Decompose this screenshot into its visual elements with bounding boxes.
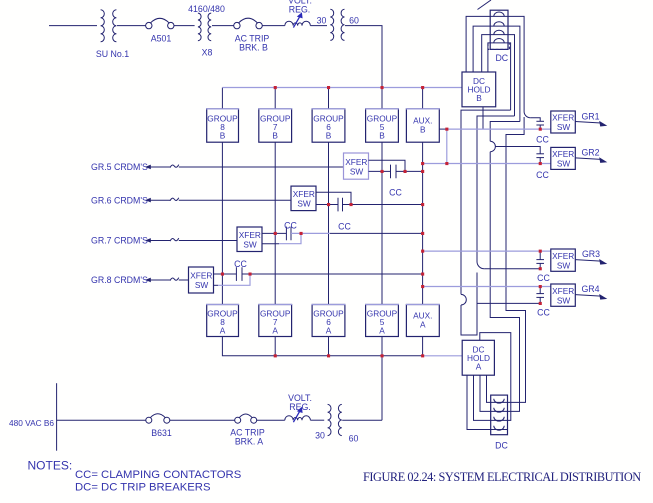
DC trip breaker stack B (box) (490, 10, 508, 49)
contactor box AUX. B (406, 109, 440, 142)
wire: stack B contact 3 loop (482, 35, 515, 116)
contactor box GROUP 7 A (258, 305, 292, 337)
wire: bus stub down to GROUP 6 B (328, 88, 330, 109)
wire: feeder between B631 and AC TRIP BRK A (170, 419, 235, 421)
wire: DC HOLD A top link from staircase (480, 333, 511, 421)
hop: V490 bump over GR2 feed (490, 141, 495, 151)
wire: feeder between volt reg and 30/60 transformer (310, 25, 327, 27)
breaker contact 2 (stack B) (494, 22, 504, 26)
node: top 480V bus (lavender) (221, 88, 223, 109)
wire: feeder from 30/60 transformer to drop at x=382 (345, 26, 382, 88)
switch GR.7 (170, 238, 179, 241)
capacitor CC (GR4) (536, 287, 544, 304)
switch GR.6 (170, 198, 179, 201)
transfer switch box XFER SW (row GR.8) (189, 267, 214, 293)
svg-text:GR4: GR4 (581, 284, 599, 294)
node: bottom 480V bus (222, 337, 422, 356)
capacitor CC (GR1) (536, 121, 544, 129)
wire: stack B contact 2 loop (473, 26, 520, 121)
wire: GR3 feed horizontal (484, 268, 540, 270)
svg-text:BRK. A: BRK. A (235, 437, 263, 447)
svg-text:SW: SW (557, 260, 571, 270)
breaker contact 2 (stack A) (494, 408, 504, 412)
svg-text:CC: CC (338, 222, 351, 232)
svg-text:SW: SW (557, 159, 571, 169)
wire: lavender GR3 line (423, 250, 551, 252)
wire: GR2 output with arrow (575, 157, 607, 163)
wire: GR2 feed horizontal (495, 147, 540, 154)
svg-text:DC: DC (495, 53, 508, 63)
breaker contact 4 (stack B) (494, 39, 504, 43)
wire: DC HOLD A bottom wire 2 to stack A (480, 375, 491, 411)
svg-text:SU No.1: SU No.1 (96, 49, 129, 59)
DC stack B dashed bottom section (488, 43, 509, 49)
wire: XFER6 bottom output to capacitor (316, 204, 338, 206)
svg-text:60: 60 (349, 15, 359, 25)
wire: feeder between A501 and X8 transformer (174, 25, 195, 27)
wire: feeder between AC TRIP A and volt reg (257, 419, 285, 421)
wire: bus stub from GROUP 5 A (381, 337, 383, 356)
arrow tap GR.8 (145, 278, 151, 283)
DC trip breaker stack A (box) (491, 395, 508, 435)
contactor box GROUP 5 B (365, 109, 399, 142)
node: row GR.8 junctions (221, 273, 224, 276)
svg-text:REG.: REG. (289, 4, 311, 14)
svg-text:CC: CC (389, 188, 402, 198)
transfer switch box XFER SW (row GR.5) (344, 153, 369, 179)
wire GR.7 row switch to XFER box (179, 240, 237, 242)
wire GR.7 row to switch (150, 240, 171, 242)
wire: GR3 output with arrow (575, 259, 607, 265)
svg-text:CC: CC (536, 170, 549, 180)
breaker contact 3 (stack A) (494, 417, 504, 421)
wire: GR4 feed horizontal from V477 tee (477, 302, 540, 304)
svg-text:30: 30 (317, 16, 327, 26)
wire: V461 continues to U-bottom (461, 273, 477, 336)
wire: feeder from 30/60 transformer to riser (342, 419, 382, 421)
svg-text:NOTES:: NOTES: (28, 459, 73, 473)
wire: GR1 output with arrow (575, 121, 607, 127)
svg-text:XFER: XFER (190, 270, 212, 280)
wire: V490 continues down to staircase (490, 152, 519, 412)
wire: XFER5 top output hook (369, 160, 406, 171)
svg-text:XFER: XFER (293, 189, 315, 199)
svg-text:B: B (220, 131, 226, 141)
breaker contact 4 (stack A) (494, 426, 504, 430)
bend: V477 corner into GR3 feed (477, 262, 484, 269)
wire: stack A contact rails inside (491, 401, 508, 403)
wire: GR4 output with arrow (575, 294, 607, 300)
svg-text:B: B (420, 125, 426, 135)
wire GR.5 row switch to XFER box (179, 166, 344, 168)
svg-text:SW: SW (350, 167, 364, 177)
node: bottom bus junctions (274, 354, 277, 357)
wire: XFER7 top output to capacitor (262, 232, 286, 234)
capacitor CC (row GR.7) (286, 227, 291, 241)
svg-text:B: B (326, 131, 332, 141)
svg-text:B: B (379, 131, 385, 141)
wire: bus stub down to AUX B (422, 88, 424, 109)
breaker contact 1 (stack A) (494, 399, 504, 403)
contactor box GROUP 5 A (365, 305, 399, 337)
wire: AUX B link to DC HOLD B region (439, 128, 448, 130)
wire: feeder between X8 and AC TRIP BRK B (212, 25, 234, 27)
wire: GR1 feed horizontal (530, 118, 540, 122)
node: row GR.7 junctions (274, 232, 277, 235)
svg-text:GR.5 CRDM'S: GR.5 CRDM'S (91, 162, 148, 172)
bend: GR1 feed corner from V524 (524, 112, 530, 118)
transfer switch box XFER SW (GR3) (551, 249, 576, 271)
node: x447 branch junctions (445, 128, 448, 131)
breaker AC TRIP BRK. B (234, 18, 263, 29)
contactor box AUX. A (406, 305, 440, 337)
wire: stack B contact 4 loop (488, 43, 511, 110)
svg-text:480 VAC B6: 480 VAC B6 (9, 418, 54, 428)
transformer SU No.1 (101, 10, 117, 42)
svg-text:SW: SW (297, 199, 311, 209)
svg-text:A: A (326, 326, 332, 336)
wire: bus stub from GROUP 6 A (328, 337, 330, 356)
wire: column under AUX B (422, 142, 424, 304)
wire: bus stub down to GROUP 5 B (381, 88, 383, 109)
wire: leader diagonal top (478, 0, 492, 10)
wire: column under GROUP 8 B (221, 142, 223, 304)
wire: bus V490 from stack loop2 down (490, 122, 520, 142)
svg-text:SW: SW (557, 295, 571, 305)
wire: column under GROUP 7 B (274, 142, 276, 304)
node: row GR.6 junctions (327, 203, 330, 206)
svg-text:XFER: XFER (552, 149, 574, 159)
svg-text:A: A (379, 326, 385, 336)
transfer switch box XFER SW (row GR.7) (237, 227, 262, 252)
wire: bus V506 from outer loop down to staircase (506, 117, 526, 402)
wire: bottom feeder left segment (57, 419, 146, 421)
transformer 30/60 (top) (330, 9, 344, 40)
wire GR.8 row switch to XFER box (179, 279, 189, 281)
hop: V461 bump over GR4 feed (461, 294, 466, 305)
transfer switch box XFER SW (GR2) (551, 147, 576, 169)
wire: row GR.5 from capacitor to AUX column (396, 170, 423, 172)
switch GR.5 (170, 165, 179, 168)
transfer switch box XFER SW (row GR.6) (291, 186, 316, 211)
svg-text:BRK. B: BRK. B (239, 43, 268, 53)
svg-text:XFER: XFER (552, 113, 574, 123)
svg-text:DC: DC (495, 441, 508, 451)
breaker contact 1 (stack B) (494, 12, 504, 16)
svg-text:CC: CC (537, 308, 550, 318)
relay box DC HOLD A (462, 340, 494, 375)
wire: bus stub from GROUP 7 A (274, 337, 276, 356)
svg-text:CC= CLAMPING CONTACTORS: CC= CLAMPING CONTACTORS (75, 469, 242, 481)
voltage regulator (bottom) VOLT. REG. (285, 407, 311, 422)
node: AUX column lavender taps (421, 162, 424, 165)
wire: bus V477 from stack loop3 down to GR3 branch (477, 116, 515, 262)
transfer switch box XFER SW (GR4) (551, 284, 576, 306)
wire: DC HOLD A bottom wire 4 to stack A (467, 375, 491, 429)
capacitor CC (GR3) (536, 251, 544, 269)
svg-text:XFER: XFER (345, 157, 367, 167)
svg-text:GR3: GR3 (582, 249, 600, 259)
wire: feeder between volt reg and 30/60 transformer (310, 419, 324, 421)
svg-text:B: B (476, 93, 482, 103)
wire: XFER5 bottom output to capacitor (369, 170, 391, 172)
svg-text:B: B (272, 131, 278, 141)
wire: bus continues lavender to DC HOLD A (423, 355, 463, 357)
svg-text:REG.: REG. (289, 402, 311, 412)
arrow tap GR.7 (145, 238, 151, 243)
svg-text:GR1: GR1 (581, 111, 599, 121)
wire: XFER6 top output hook (316, 192, 351, 204)
contactor box GROUP 6 A (312, 305, 346, 337)
wire: XFER8 bottom output (214, 284, 219, 286)
wire GR.6 row switch to XFER box (179, 199, 291, 201)
svg-text:GR.6 CRDM'S: GR.6 CRDM'S (91, 195, 148, 205)
relay box DC HOLD B (462, 72, 496, 107)
svg-text:B631: B631 (151, 428, 172, 438)
svg-text:CC: CC (234, 259, 247, 269)
svg-text:GR2: GR2 (581, 148, 599, 158)
transfer switch box XFER SW (GR1) (551, 111, 576, 133)
svg-text:XFER: XFER (552, 286, 574, 296)
svg-text:XFER: XFER (239, 230, 261, 240)
svg-text:CC: CC (536, 135, 549, 145)
wire: row GR.6 from capacitor to AUX column (343, 204, 423, 206)
wire GR.5 row to switch (150, 166, 171, 168)
wire: lavender branch 447 vertical (446, 129, 448, 163)
svg-text:4160/480: 4160/480 (188, 4, 225, 14)
svg-text:SW: SW (557, 122, 571, 132)
svg-text:A: A (272, 326, 278, 336)
wire: row GR.8 from capacitor to AUX column (242, 273, 423, 275)
wire: lavender GR2 line (423, 163, 551, 165)
svg-text:DC= DC TRIP BREAKERS: DC= DC TRIP BREAKERS (75, 481, 211, 493)
svg-text:A: A (420, 320, 426, 330)
junction dots (red) (221, 86, 542, 357)
voltage regulator (top) VOLT. REG. (285, 12, 311, 27)
contactor box GROUP 8 A (206, 305, 239, 337)
wire: row GR.7 from capacitor to AUX column (lavender then navy) (291, 232, 330, 234)
transformer X8 4160/480 (198, 13, 211, 41)
wire: bus V461 from stack loop4 down right side (461, 110, 511, 294)
capacitor CC (row GR.8) (236, 267, 242, 281)
contactor box GROUP 6 B (312, 109, 346, 142)
breaker AC TRIP BRK. A (235, 414, 257, 423)
switch GR.8 (170, 278, 179, 281)
wire: top 4160V feeder left segment (49, 25, 97, 27)
wire: feeder between SU transformer and A501 (117, 25, 146, 27)
svg-text:A501: A501 (151, 34, 172, 44)
wire: feeder between AC TRIP BRK B and volt reg (262, 25, 285, 27)
breaker B631 (146, 414, 170, 423)
capacitor CC (row GR.5) (391, 165, 397, 179)
wire GR.8 row to switch (150, 279, 171, 281)
wire: stack B contact 1 loop (outermost) (466, 16, 524, 111)
svg-text:X8: X8 (202, 47, 213, 57)
node: row GR.5 junctions (381, 170, 384, 173)
wire: bus stub from AUX A (422, 337, 424, 356)
wire: lavender hook row GR.8 (218, 274, 250, 285)
svg-text:GR.7 CRDM'S: GR.7 CRDM'S (91, 236, 148, 246)
node: top bus junctions (274, 86, 277, 89)
svg-text:GR.8 CRDM'S: GR.8 CRDM'S (91, 275, 148, 285)
wire: column under GROUP 5 B (381, 142, 383, 304)
transformer 30/60 (bottom) (328, 404, 342, 435)
capacitor CC (row GR.6) (338, 198, 343, 212)
wire: DC HOLD A bottom wire 1 to stack A (487, 375, 491, 402)
wire: XFER7 bottom output (262, 243, 279, 245)
svg-text:XFER: XFER (552, 251, 574, 261)
svg-text:CC: CC (537, 273, 550, 283)
svg-text:A: A (220, 326, 226, 336)
wire: bus stub down to GROUP 7 B (274, 88, 276, 109)
svg-text:SW: SW (195, 280, 209, 290)
wire: lavender hook row GR.7 (279, 233, 301, 243)
svg-text:30: 30 (315, 431, 325, 441)
contactor box GROUP 7 B (258, 109, 292, 142)
wire GR.6 row to switch (150, 199, 171, 201)
wire: lavender GR4 line (423, 286, 551, 288)
wire: DC HOLD B bottom stub to GR1 lavender (482, 107, 484, 129)
wire: XFER8 top output to capacitor (214, 273, 237, 275)
breaker contact 3 (stack B) (494, 30, 504, 34)
svg-text:FIGURE 02.24: SYSTEM ELECTRIC: FIGURE 02.24: SYSTEM ELECTRICAL DISTRIBU… (363, 470, 641, 484)
wire: riser from bottom feeder to bottom bus at x=382 (381, 356, 383, 420)
arrow tap GR.6 (145, 198, 151, 203)
arrow tap GR.5 (145, 165, 151, 170)
svg-text:A: A (476, 361, 482, 371)
breaker A501 (146, 18, 174, 29)
node: GR capacitor junctions at x540 (539, 128, 542, 131)
wire: left riser at 480 VAC B6 tap (56, 383, 58, 451)
svg-text:SW: SW (243, 239, 257, 249)
capacitor CC (GR2) (536, 154, 544, 164)
svg-text:CC: CC (284, 220, 297, 230)
svg-text:60: 60 (349, 434, 359, 444)
wire: column under GROUP 6 B (328, 142, 330, 304)
wire: lavender GR1 line (447, 128, 551, 130)
wire: DC HOLD A bottom wire 3 to stack A (474, 375, 491, 420)
contactor box GROUP 8 B (206, 109, 239, 142)
